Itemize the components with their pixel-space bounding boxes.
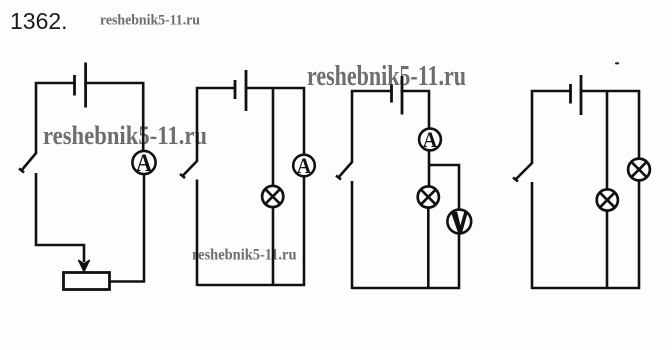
- wire: C3 switch bottom to bottom wire: [351, 181, 354, 289]
- lamp: [262, 186, 283, 207]
- wire: C1 switch bottom to rheostat slider: [36, 173, 84, 262]
- svg-text:reshebnik5-11.ru: reshebnik5-11.ru: [100, 13, 200, 29]
- battery: [235, 70, 246, 111]
- wire: C1 battery plus to ammeter top: [84, 83, 143, 152]
- svg-text:A: A: [136, 150, 152, 177]
- ammeter A: [132, 150, 155, 177]
- mark: [615, 62, 619, 64]
- svg-text:1362.: 1362.: [10, 8, 68, 34]
- battery: [392, 76, 403, 115]
- wire: C1 top-left (switch top to battery minus): [36, 83, 76, 153]
- lamp: [628, 159, 650, 181]
- wire: C3 top-left: [352, 91, 393, 162]
- switch: [180, 161, 198, 179]
- svg-text:A: A: [297, 153, 312, 178]
- switch: [513, 163, 533, 182]
- wire: C3 lamp bottom to bottom wire: [427, 208, 430, 290]
- wire: C4 right lamp bottom to bottom-left: [532, 181, 639, 289]
- rheostat: [64, 273, 110, 290]
- ammeter A: [419, 127, 441, 152]
- battery: [571, 75, 582, 115]
- wire: C3 battery plus to ammeter top: [401, 91, 429, 129]
- wire: C2 ammeter bottom to bottom-right corner: [197, 176, 304, 285]
- wire: C2 lamp bottom to bottom wire: [272, 207, 275, 286]
- wire: C3 junction to voltmeter top: [429, 165, 459, 209]
- wire: C2 switch bottom to bottom wire: [196, 180, 199, 287]
- wire: C1 ammeter bottom to rheostat right: [109, 174, 144, 282]
- wire: C2 middle branch top: [272, 88, 275, 187]
- svg-text:A: A: [423, 127, 438, 152]
- svg-text:reshebnik5-11.ru: reshebnik5-11.ru: [307, 61, 466, 92]
- wire: C3 ammeter bottom through junction to lamp: [428, 150, 431, 187]
- voltmeter V: [447, 210, 471, 234]
- wire: C3 voltmeter bottom to bottom wire: [352, 233, 459, 289]
- wire: C4 top-left: [532, 91, 572, 163]
- wire: C4 switch bottom to bottom wire: [531, 182, 534, 289]
- wire: C4 middle lamp bottom to bottom wire: [606, 211, 609, 290]
- svg-text:reshebnik5-11.ru: reshebnik5-11.ru: [43, 121, 207, 150]
- switch: [19, 153, 37, 173]
- battery: [75, 63, 86, 108]
- rheostat slider arrow: [79, 260, 90, 271]
- wire: C4 middle branch top: [606, 91, 609, 190]
- wire: C4 battery plus to right branch top: [580, 91, 639, 159]
- wire: C2 top-left: [197, 88, 236, 161]
- ammeter A: [293, 153, 315, 178]
- wire: C2 battery plus to right branch top: [245, 88, 304, 156]
- svg-text:reshebnik5-11.ru: reshebnik5-11.ru: [192, 247, 297, 264]
- lamp: [597, 189, 618, 210]
- switch: [336, 162, 353, 180]
- lamp: [418, 186, 439, 207]
